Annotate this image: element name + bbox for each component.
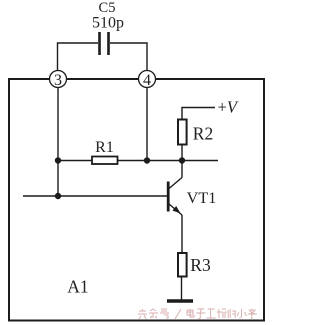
svg-text:4: 4	[143, 72, 151, 89]
wire from node 3 up to capacitor	[58, 43, 99, 71]
resistor R2	[178, 120, 187, 145]
wire from capacitor to node 4	[110, 43, 147, 71]
svg-text:VT1: VT1	[187, 189, 217, 207]
svg-text:+V: +V	[218, 98, 239, 117]
svg-text:A1: A1	[67, 277, 88, 297]
wire node 4 down to R1 rail	[146, 88, 148, 161]
transistor VT1	[168, 178, 182, 216]
label A1	[67, 277, 88, 297]
node junction dot at base wire	[55, 193, 61, 199]
wire node 3 down into box	[57, 88, 59, 197]
svg-text:R3: R3	[190, 255, 211, 275]
svg-text:510p: 510p	[92, 15, 124, 32]
box A1 outline	[9, 79, 264, 321]
label R2	[193, 124, 213, 144]
svg-text:3: 3	[54, 72, 62, 89]
node junction dot below node 4	[144, 157, 150, 163]
wire R3 to ground	[181, 278, 183, 300]
node 3	[50, 71, 67, 89]
wire horizontal rail through R1	[58, 160, 218, 162]
label R3	[190, 255, 211, 275]
label +V	[218, 98, 239, 117]
svg-text:R2: R2	[193, 124, 213, 144]
label C5	[99, 0, 116, 16]
resistor R1	[92, 157, 118, 165]
ground	[167, 299, 193, 302]
label VT1	[187, 189, 217, 207]
resistor R3	[178, 253, 187, 277]
node junction dot at collector rail	[179, 157, 185, 163]
wire base input	[23, 195, 167, 197]
wire +V supply	[182, 108, 215, 120]
label R1	[95, 139, 114, 156]
node junction dot at R1 left	[55, 157, 61, 163]
node 4	[139, 71, 156, 89]
watermark	[138, 309, 257, 319]
svg-text:R1: R1	[95, 139, 114, 156]
wire R2 to collector	[181, 146, 183, 178]
capacitor C5	[100, 32, 109, 55]
wire emitter to R3	[181, 215, 183, 252]
value 510p	[92, 15, 124, 32]
